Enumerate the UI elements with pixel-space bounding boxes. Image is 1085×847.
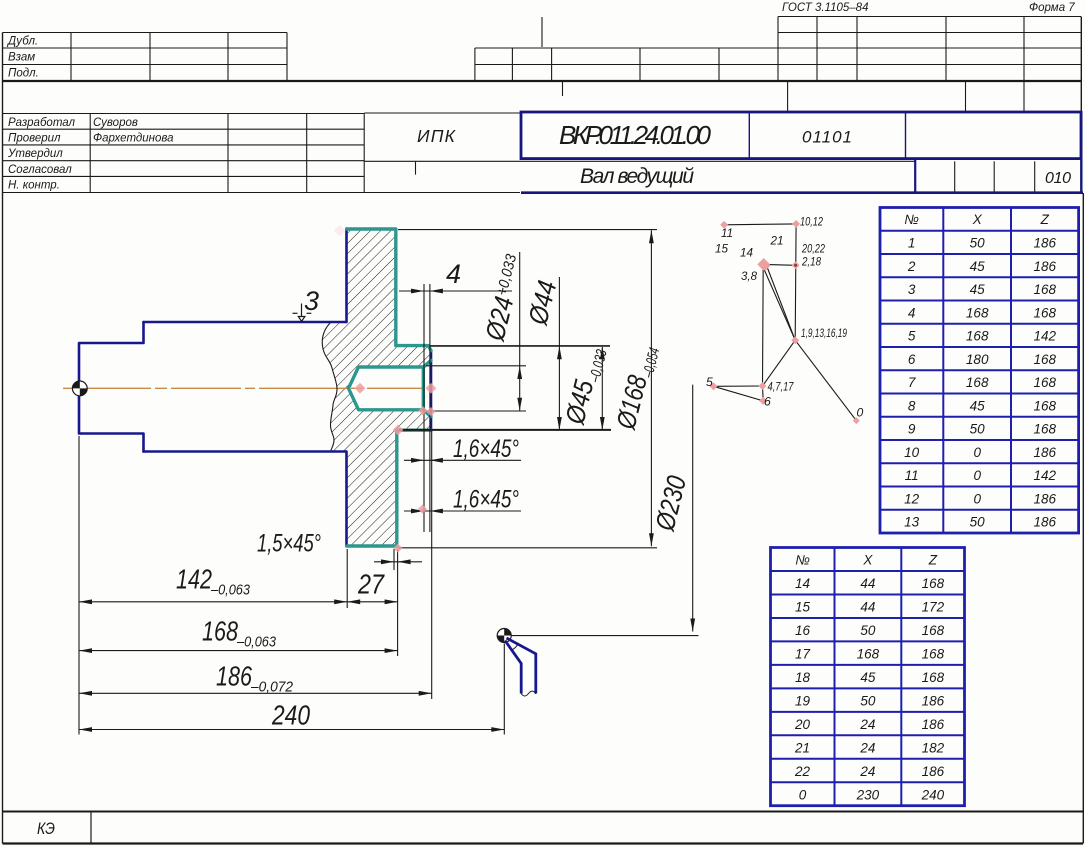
svg-text:2: 2 xyxy=(907,259,916,274)
centerline xyxy=(63,387,423,389)
svg-text:–0,072: –0,072 xyxy=(250,680,293,696)
boss right face xyxy=(430,350,433,429)
svg-text:0: 0 xyxy=(973,445,981,460)
svg-text:6: 6 xyxy=(908,352,916,367)
186 arrows xyxy=(79,691,92,696)
dimension lines xyxy=(79,291,521,730)
svg-text:24: 24 xyxy=(859,740,875,755)
svg-text:15: 15 xyxy=(795,600,811,615)
svg-text:168: 168 xyxy=(1034,422,1057,437)
svg-text:№: № xyxy=(795,553,810,568)
svg-text:№: № xyxy=(904,212,919,227)
block D signature rows xyxy=(3,114,521,193)
svg-text:1,6×45°: 1,6×45° xyxy=(453,486,519,514)
svg-text:182: 182 xyxy=(922,740,945,755)
svg-text:168: 168 xyxy=(1034,282,1057,297)
svg-text:КЭ: КЭ xyxy=(37,820,55,838)
f168 arrows xyxy=(600,346,605,359)
svg-text:186: 186 xyxy=(216,661,252,692)
svg-text:3: 3 xyxy=(304,286,319,316)
svg-text:ВКР.011.24.01.00: ВКР.011.24.01.00 xyxy=(559,120,712,150)
svg-text:168: 168 xyxy=(1034,398,1057,413)
svg-text:ИПК: ИПК xyxy=(417,126,457,146)
dim 4 arrows xyxy=(411,289,424,294)
teal machined profile xyxy=(347,229,431,546)
svg-text:142: 142 xyxy=(1034,468,1057,483)
f44/f45 arrows xyxy=(557,346,562,359)
svg-text:168: 168 xyxy=(1034,375,1057,390)
svg-text:19: 19 xyxy=(795,693,811,708)
svg-text:50: 50 xyxy=(970,236,986,251)
shaft blue outline xyxy=(79,229,431,547)
diagram point labels xyxy=(706,215,864,420)
svg-text:4: 4 xyxy=(908,305,916,320)
svg-text:5: 5 xyxy=(908,329,916,344)
svg-text:230: 230 xyxy=(856,787,880,802)
svg-text:5: 5 xyxy=(706,375,713,389)
table C top-right xyxy=(778,17,1081,113)
svg-text:168: 168 xyxy=(922,670,945,685)
svg-text:186: 186 xyxy=(1034,491,1057,506)
svg-text:1,6×45°: 1,6×45° xyxy=(453,435,519,463)
svg-text:186: 186 xyxy=(1034,259,1057,274)
extension lines thin black xyxy=(79,230,699,735)
wavy break line xyxy=(322,322,337,452)
svg-text:Суворов: Суворов xyxy=(93,117,138,129)
svg-text:12: 12 xyxy=(904,491,920,506)
svg-text:44: 44 xyxy=(860,600,875,615)
svg-text:Форма 7: Форма 7 xyxy=(1029,2,1075,14)
svg-text:50: 50 xyxy=(970,515,986,530)
svg-text:14: 14 xyxy=(795,576,810,591)
svg-text:20,22: 20,22 xyxy=(801,242,825,256)
svg-text:168: 168 xyxy=(966,375,989,390)
svg-text:1,9,13,16,19: 1,9,13,16,19 xyxy=(801,326,847,340)
svg-text:44: 44 xyxy=(860,576,875,591)
svg-text:240: 240 xyxy=(271,700,310,731)
svg-text:Взам: Взам xyxy=(8,52,35,64)
svg-text:172: 172 xyxy=(922,600,945,615)
svg-text:186: 186 xyxy=(922,693,945,708)
svg-text:Согласовал: Согласовал xyxy=(8,164,72,176)
svg-text:13: 13 xyxy=(904,515,920,530)
sheet right border black parts xyxy=(1080,17,1082,113)
svg-text:21: 21 xyxy=(770,234,784,248)
svg-text:Z: Z xyxy=(1040,212,1050,227)
svg-text:180: 180 xyxy=(966,352,989,367)
svg-text:Подл.: Подл. xyxy=(8,68,39,80)
svg-text:168: 168 xyxy=(857,646,880,661)
svg-text:0: 0 xyxy=(799,787,807,802)
svg-text:45: 45 xyxy=(860,670,876,685)
svg-text:4: 4 xyxy=(446,259,461,289)
svg-text:0: 0 xyxy=(973,468,981,483)
svg-text:240: 240 xyxy=(921,787,945,802)
svg-text:10: 10 xyxy=(904,445,920,460)
arrowheads xyxy=(79,230,695,732)
svg-text:168: 168 xyxy=(966,329,989,344)
cutting tool symbol xyxy=(497,629,536,697)
svg-text:Фархетдинова: Фархетдинова xyxy=(93,133,174,145)
diagram point markers xyxy=(710,220,860,424)
svg-text:9: 9 xyxy=(908,422,916,437)
pink node markers on part xyxy=(355,383,437,553)
table B middle xyxy=(475,17,778,96)
svg-text:186: 186 xyxy=(1034,445,1057,460)
1,6x45 arrows xyxy=(411,458,424,463)
svg-text:0: 0 xyxy=(973,491,981,506)
f24 arrows xyxy=(517,366,522,379)
svg-text:45: 45 xyxy=(970,259,986,274)
svg-text:–0,063: –0,063 xyxy=(210,583,250,599)
svg-text:50: 50 xyxy=(860,623,876,638)
240 arrows xyxy=(79,727,92,732)
svg-text:168: 168 xyxy=(1034,352,1057,367)
svg-text:Z: Z xyxy=(928,553,938,568)
svg-text:142: 142 xyxy=(176,564,212,595)
svg-text:1: 1 xyxy=(908,236,916,251)
svg-text:50: 50 xyxy=(970,422,986,437)
svg-text:3: 3 xyxy=(908,282,916,297)
svg-text:3,8: 3,8 xyxy=(741,269,757,283)
data table 1 xyxy=(880,208,1079,534)
svg-text:11: 11 xyxy=(721,226,733,240)
svg-text:186: 186 xyxy=(1034,236,1057,251)
svg-text:11: 11 xyxy=(905,468,919,483)
svg-text:18: 18 xyxy=(795,670,811,685)
svg-text:15: 15 xyxy=(715,242,728,256)
svg-text:168: 168 xyxy=(1034,305,1057,320)
datum circle symbol left end xyxy=(72,381,87,396)
data table 2 xyxy=(771,548,965,806)
hatched section area xyxy=(322,229,430,547)
tool path diagram lines xyxy=(714,224,857,421)
header small texts xyxy=(6,2,1075,192)
svg-text:45: 45 xyxy=(970,398,986,413)
bottom KE strip xyxy=(3,812,1084,844)
data table 2 text xyxy=(794,553,945,803)
svg-text:142: 142 xyxy=(1034,329,1057,344)
svg-text:4,7,17: 4,7,17 xyxy=(768,380,795,394)
thick separator line xyxy=(3,80,1082,82)
svg-text:Утвердил: Утвердил xyxy=(7,148,63,160)
svg-text:22: 22 xyxy=(794,764,811,779)
168 arrows xyxy=(79,648,92,653)
svg-text:6: 6 xyxy=(764,395,771,409)
svg-text:X: X xyxy=(862,553,873,568)
svg-text:Дубл.: Дубл. xyxy=(6,36,38,48)
svg-text:20: 20 xyxy=(794,717,811,732)
svg-text:01101: 01101 xyxy=(802,128,852,147)
svg-text:17: 17 xyxy=(795,646,811,661)
base symbol 3 xyxy=(293,304,312,322)
svg-text:ГОСТ 3.1105–84: ГОСТ 3.1105–84 xyxy=(782,2,868,14)
svg-text:27: 27 xyxy=(357,569,385,600)
svg-text:168: 168 xyxy=(202,616,238,647)
blue designation box xyxy=(521,112,1081,159)
white hole interior mask (ensure) xyxy=(349,367,424,410)
svg-text:168: 168 xyxy=(922,646,945,661)
svg-text:24: 24 xyxy=(859,764,875,779)
svg-text:10,12: 10,12 xyxy=(800,215,823,229)
svg-text:0: 0 xyxy=(857,406,864,420)
svg-text:14: 14 xyxy=(740,246,753,260)
svg-text:010: 010 xyxy=(1045,170,1071,187)
svg-text:168: 168 xyxy=(922,576,945,591)
svg-text:8: 8 xyxy=(908,398,916,413)
rotated diameter labels xyxy=(480,251,531,344)
svg-text:1,5×45°: 1,5×45° xyxy=(257,530,321,558)
1,5x45 arrows xyxy=(381,559,394,564)
svg-text:168: 168 xyxy=(966,305,989,320)
svg-text:Н. контр.: Н. контр. xyxy=(8,180,60,192)
sheet left border xyxy=(2,33,4,844)
svg-text:Вал ведущий: Вал ведущий xyxy=(580,165,694,188)
svg-text:7: 7 xyxy=(908,375,916,390)
svg-text:186: 186 xyxy=(922,717,945,732)
svg-text:21: 21 xyxy=(794,740,810,755)
142 / 27 arrows xyxy=(79,599,92,604)
lower vertical arrow xyxy=(690,619,695,632)
svg-text:168: 168 xyxy=(922,623,945,638)
data table 1 text xyxy=(904,212,1056,530)
svg-text:Разработал: Разработал xyxy=(8,117,76,129)
svg-text:45: 45 xyxy=(970,282,986,297)
svg-text:186: 186 xyxy=(1034,515,1057,530)
svg-text:–0,063: –0,063 xyxy=(236,635,276,651)
title row (Вал ведущий) xyxy=(955,161,1035,192)
f230 arrows xyxy=(649,230,654,243)
svg-text:X: X xyxy=(972,212,983,227)
IPK cell xyxy=(364,113,915,175)
svg-text:186: 186 xyxy=(922,764,945,779)
table A rows (dubl/vzam/podl) xyxy=(3,33,288,82)
svg-text:24: 24 xyxy=(859,717,875,732)
svg-text:50: 50 xyxy=(860,693,876,708)
svg-text:2,18: 2,18 xyxy=(801,255,821,269)
svg-text:16: 16 xyxy=(795,623,811,638)
svg-text:Проверил: Проверил xyxy=(8,133,61,145)
